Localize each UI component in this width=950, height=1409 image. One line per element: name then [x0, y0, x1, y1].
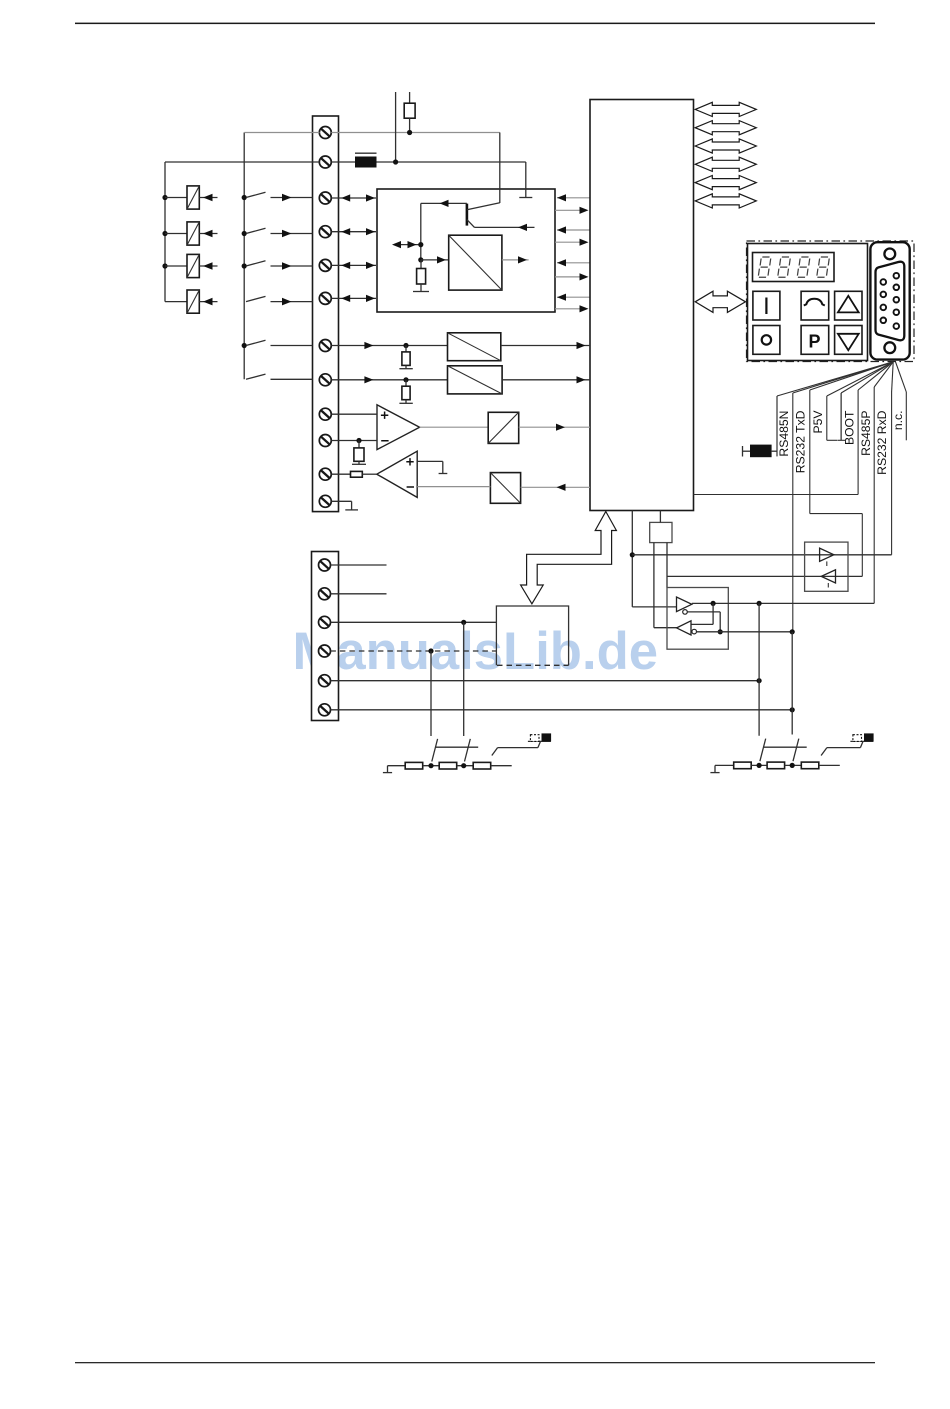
- bus arrow CPU-pulse: [521, 512, 617, 604]
- svg-text:RS232 TxD: RS232 TxD: [794, 410, 808, 473]
- page bottom rule: [75, 1362, 875, 1363]
- A/D converter U2: [449, 235, 502, 290]
- button stop: [753, 326, 780, 355]
- wire supply row6: [330, 707, 794, 712]
- converter U2b: [488, 412, 519, 443]
- ground: [710, 765, 719, 772]
- switch S5: [242, 340, 313, 348]
- wire analog input: [331, 342, 447, 349]
- wire supply row5: [330, 678, 761, 683]
- wire pin RS485P: [858, 362, 893, 390]
- wire collector feed: [499, 133, 501, 204]
- wire from CPU to U2c: [521, 484, 590, 491]
- resistor R3: [352, 441, 366, 465]
- jumper switch: [821, 733, 874, 755]
- wire pin RS485N: [777, 362, 893, 457]
- keypad housing: [748, 244, 868, 361]
- bus arrow: [695, 194, 756, 208]
- button P: [801, 326, 829, 355]
- wire U2 output: [502, 256, 529, 263]
- wire -input from U2c: [417, 486, 490, 488]
- switch S4: [246, 296, 313, 305]
- wire pulse input net: [330, 620, 496, 736]
- bus arrow: [695, 102, 756, 116]
- wire output to CPU: [555, 305, 589, 312]
- display window: [753, 253, 835, 282]
- wire internal supply drop: [519, 162, 532, 198]
- wire +input to ground: [417, 461, 447, 473]
- resistor R1: [404, 92, 415, 135]
- wire pulse dashed net: [330, 648, 496, 736]
- wire pin nc right: [896, 362, 907, 441]
- page top rule: [75, 23, 875, 25]
- node divider tap: [418, 257, 423, 262]
- microcontroller U5: [590, 100, 694, 511]
- wire pin BOOT: [841, 362, 893, 441]
- wire feedback: [691, 603, 713, 624]
- switch S2: [242, 228, 313, 237]
- button start: [753, 291, 780, 320]
- node bidirectional tap: [392, 241, 423, 248]
- wire latch right lead: [666, 543, 668, 588]
- wire output to CPU: [555, 207, 589, 214]
- wire bidirectional digital I/O: [331, 194, 376, 201]
- wire RS485N down: [776, 396, 778, 456]
- isolation amplifier U3b: [448, 366, 503, 394]
- wire U4a output: [420, 426, 489, 428]
- wire BOOT down: [840, 393, 842, 440]
- resistor R4: [331, 471, 377, 477]
- switch S1: [242, 192, 313, 201]
- wire RS485P down: [694, 390, 859, 495]
- latch U7: [650, 511, 672, 543]
- wire bidirectional digital I/O: [331, 295, 376, 302]
- RS485 driver U8: [805, 542, 848, 591]
- switch S3: [242, 261, 313, 270]
- svg-text:P5V: P5V: [811, 410, 825, 434]
- button down: [835, 326, 862, 355]
- wire handshake down: [891, 392, 893, 555]
- wire base net: [421, 200, 467, 260]
- switch S6: [246, 374, 313, 379]
- bus arrow: [695, 121, 756, 135]
- driver U9a: [677, 597, 692, 614]
- wire TxD vertical: [791, 632, 793, 735]
- wire U9a out: [692, 601, 874, 606]
- wire to CPU analog: [519, 424, 590, 431]
- driver U9b: [677, 621, 697, 635]
- bus arrow: [695, 157, 756, 171]
- wire latch left lead: [654, 543, 677, 628]
- bus arrow: [695, 176, 756, 190]
- wire output to CPU: [555, 273, 589, 280]
- operator panel dash-dot frame: [747, 241, 915, 362]
- wire enable net: [667, 575, 862, 577]
- wire input to U1: [557, 294, 590, 301]
- tick open end: [837, 439, 845, 441]
- jumper switch: [492, 733, 551, 755]
- relay K4: [165, 290, 218, 313]
- wire to converter U2: [421, 256, 449, 263]
- driver U8a: [820, 548, 834, 566]
- pulse input block U6: [496, 606, 568, 665]
- wire emitter net: [475, 224, 535, 231]
- wire digital common row1: [244, 132, 500, 134]
- wire input to U1: [557, 194, 590, 201]
- wire CPU serial down: [630, 511, 677, 607]
- terminal strip X3: [312, 552, 339, 721]
- wire bidirectional digital I/O: [331, 262, 376, 269]
- wire input to U1: [557, 259, 590, 266]
- wire output to CPU: [555, 239, 589, 246]
- relay K3: [162, 254, 217, 277]
- bus arrow: [695, 139, 756, 153]
- wire +input: [331, 413, 377, 415]
- resistor divider: [399, 346, 412, 369]
- resistor chain: [388, 762, 512, 769]
- ground: [413, 291, 429, 293]
- wire U3a to CPU: [501, 342, 590, 349]
- wire pin n.c.: [892, 362, 894, 392]
- selector switch: [432, 739, 478, 762]
- converter U2c: [490, 473, 520, 504]
- wire stub2: [330, 593, 386, 595]
- button function: [801, 291, 829, 320]
- wire RS232TxD down: [792, 393, 794, 632]
- wire RxD vertical: [758, 603, 760, 735]
- wire P5V down: [810, 390, 863, 576]
- wire bidirectional digital I/O: [331, 228, 376, 235]
- selector switch: [760, 739, 807, 762]
- relay K2: [162, 222, 217, 245]
- wire TxD net: [697, 629, 795, 634]
- wire -input: [331, 438, 377, 443]
- wire U9a bubble net: [687, 612, 723, 635]
- op-amp U4b: [377, 451, 417, 497]
- terminal strip X1: [313, 116, 339, 512]
- screw terminals X1: [319, 127, 331, 508]
- ground at screw12: [331, 501, 358, 510]
- node bus1: [164, 162, 166, 302]
- keypad bus arrow: [695, 291, 745, 312]
- wire stub to R1: [395, 92, 397, 162]
- driver U8b: [821, 570, 835, 588]
- RS232 driver U9: [667, 588, 728, 650]
- wire RS232RxD down: [873, 387, 875, 603]
- digital input block U1: [377, 189, 555, 312]
- op-amp U4a: [377, 405, 420, 450]
- wire pin P5V: [810, 362, 893, 390]
- transistor Q1: [467, 203, 500, 228]
- button up: [835, 291, 862, 320]
- wire U3b to CPU: [502, 376, 590, 383]
- ferrite bead L1: [355, 153, 377, 167]
- isolation amplifier U3a: [448, 333, 501, 361]
- connector X2 DB9: [870, 242, 909, 359]
- termination resistor R10: [743, 445, 778, 458]
- resistor divider: [399, 380, 412, 404]
- screw terminals X3: [319, 559, 331, 716]
- svg-text:BOOT: BOOT: [842, 410, 856, 445]
- svg-text:P: P: [809, 332, 821, 352]
- node bus2: [243, 133, 245, 380]
- svg-text:RS485P: RS485P: [859, 411, 873, 456]
- 7-segment digits: [758, 257, 829, 277]
- wire pin nc: [827, 362, 893, 441]
- wire pin RS232 TxD: [793, 362, 893, 393]
- resistor R2: [417, 260, 426, 292]
- resistor chain: [715, 762, 840, 769]
- wire row2 net: [165, 161, 526, 163]
- wire pin RS232 RxD: [874, 362, 893, 387]
- svg-text:RS485N: RS485N: [777, 411, 791, 457]
- relay K1: [162, 186, 217, 209]
- wire handshake net: [632, 554, 891, 556]
- wire stub1: [330, 564, 386, 566]
- wire input to U1: [557, 226, 590, 233]
- ground: [383, 766, 392, 773]
- svg-text:RS232 RxD: RS232 RxD: [875, 410, 889, 475]
- wire analog input: [331, 376, 447, 383]
- svg-text:n.c.: n.c.: [891, 411, 905, 431]
- tick open end: [827, 439, 837, 441]
